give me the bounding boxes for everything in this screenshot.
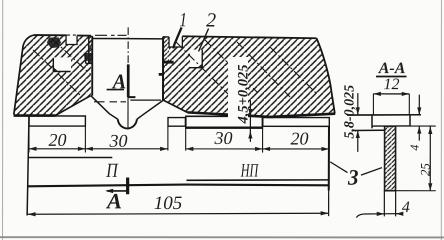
flange bottom <box>372 125 410 127</box>
funnel right slope <box>137 100 163 119</box>
left wall step vertical <box>85 53 87 64</box>
right wall tick lower <box>159 73 164 76</box>
dim 4 right line <box>418 95 420 141</box>
web bottom extension right <box>396 190 436 192</box>
dark blob detail <box>47 37 61 48</box>
strip D <box>263 118 330 127</box>
section trace foot <box>128 96 135 98</box>
halo for 4,5 text <box>228 57 248 124</box>
body left bottom edge <box>14 114 56 117</box>
web of T strip hatched <box>385 126 396 190</box>
svg-text:А: А <box>105 188 122 213</box>
body left slope edge <box>14 35 34 115</box>
svg-text:П: П <box>105 160 119 182</box>
body right bottom edge <box>187 112 335 117</box>
dim 5,8 line upper <box>357 93 359 152</box>
dim 12 arrows <box>373 92 409 96</box>
label 3 leader left <box>330 162 347 173</box>
right gib sliver hatch <box>163 37 169 62</box>
notch outline <box>66 35 77 44</box>
frame right gray rule <box>440 0 442 240</box>
chain line in left body 2 <box>52 39 90 74</box>
label 3 leader right <box>361 168 382 176</box>
section trace bold <box>127 64 130 97</box>
section trace bottom bold tick <box>126 178 129 195</box>
center line top horizontal dashes <box>65 34 127 36</box>
strip C bottom bold <box>186 126 263 128</box>
plate P top line <box>28 156 112 158</box>
dim 5,8 arrows <box>356 107 360 138</box>
svg-text:30: 30 <box>108 131 127 151</box>
dim 4 bottom line <box>364 213 401 215</box>
right sliver cap <box>163 36 169 38</box>
extension lines dimension row <box>29 126 263 153</box>
svg-text:3: 3 <box>347 165 358 190</box>
central notch arc <box>118 119 137 128</box>
channel bottom line <box>130 99 161 101</box>
stub line 5,8 lower <box>352 129 385 131</box>
dim 25 arrows <box>428 127 432 191</box>
dimension 105 line <box>28 213 329 214</box>
dim line 12 <box>373 93 409 95</box>
flange left side <box>371 115 373 129</box>
dim 4 right arrows <box>417 107 421 133</box>
svg-text:20: 20 <box>290 129 308 149</box>
center line lower <box>127 97 129 129</box>
flange top line <box>347 114 421 116</box>
svg-text:20: 20 <box>48 130 66 150</box>
left wall outer line <box>88 36 90 63</box>
channel cap line <box>92 38 163 40</box>
section title underline <box>376 76 407 78</box>
body right bottom to wall <box>163 100 187 112</box>
strip A under body left <box>29 116 85 126</box>
svg-text:2: 2 <box>206 9 216 31</box>
dim 25 line <box>429 126 431 191</box>
right wall line <box>162 37 164 100</box>
body left half hatched <box>14 35 91 116</box>
body right top edge <box>182 36 316 38</box>
right wall tick upper <box>163 61 174 64</box>
right slot outline <box>169 36 182 47</box>
dim 4 bottom tail <box>356 214 363 218</box>
internal step right body <box>190 50 202 68</box>
flange bottom extension <box>410 125 436 127</box>
dim 12 ticks <box>373 94 409 115</box>
arrowheads dimension row <box>29 147 329 151</box>
svg-text:4: 4 <box>407 145 421 151</box>
plate left edge <box>27 116 29 216</box>
body right slope edge <box>317 38 335 113</box>
internal step left body <box>53 57 71 71</box>
svg-text:4,5+0,025: 4,5+0,025 <box>235 64 251 124</box>
dimension line 30-20 right <box>186 148 329 150</box>
dim 4 bottom arrows <box>377 212 404 216</box>
svg-text:12: 12 <box>384 76 400 93</box>
dimension 4,5 arrows <box>248 109 252 139</box>
svg-text:5,8-0,025: 5,8-0,025 <box>342 85 357 139</box>
body left outline top edge <box>34 34 91 37</box>
svg-text:30: 30 <box>213 128 232 148</box>
left wall inner line <box>91 36 93 96</box>
section arrow bottom head <box>105 189 113 193</box>
left wall step horizontal <box>86 62 93 64</box>
frame bottom gray rule <box>0 236 444 238</box>
channel bottom dash-dot <box>94 101 126 103</box>
frame left gray rule <box>2 0 4 240</box>
chain lines in right body <box>176 42 228 94</box>
funnel left slope <box>91 96 118 120</box>
body left rising edge to channel <box>56 96 91 116</box>
dimension 4,5 vertical line <box>249 100 251 142</box>
box B under funnel right <box>168 118 185 127</box>
strip C <box>186 116 263 128</box>
dimension 105 arrows <box>28 211 329 217</box>
web bottom extensions down <box>384 191 395 217</box>
flange right side <box>409 115 411 127</box>
body right half hatched <box>163 36 335 117</box>
dimension 105 extension right <box>328 190 330 216</box>
letter A top underline <box>107 89 124 91</box>
plate right edge <box>328 126 330 190</box>
left wall gib sliver hatch <box>89 36 93 64</box>
svg-text:25: 25 <box>417 163 432 177</box>
center line top dashes <box>127 27 129 63</box>
section arrow bottom line <box>107 190 128 192</box>
chain line in left body <box>33 50 80 95</box>
left wall dark tick <box>84 53 92 61</box>
label 2 leader <box>199 28 209 51</box>
dimension line 20-30 left <box>29 148 168 150</box>
svg-text:А-А: А-А <box>378 60 406 77</box>
label 1 leader <box>173 27 181 48</box>
svg-text:4: 4 <box>402 199 410 216</box>
svg-text:НП: НП <box>240 161 259 182</box>
plate bottom line <box>28 184 329 186</box>
plate NP bottom line <box>186 179 328 182</box>
svg-text:105: 105 <box>154 193 183 214</box>
notch top-left white <box>66 34 77 44</box>
